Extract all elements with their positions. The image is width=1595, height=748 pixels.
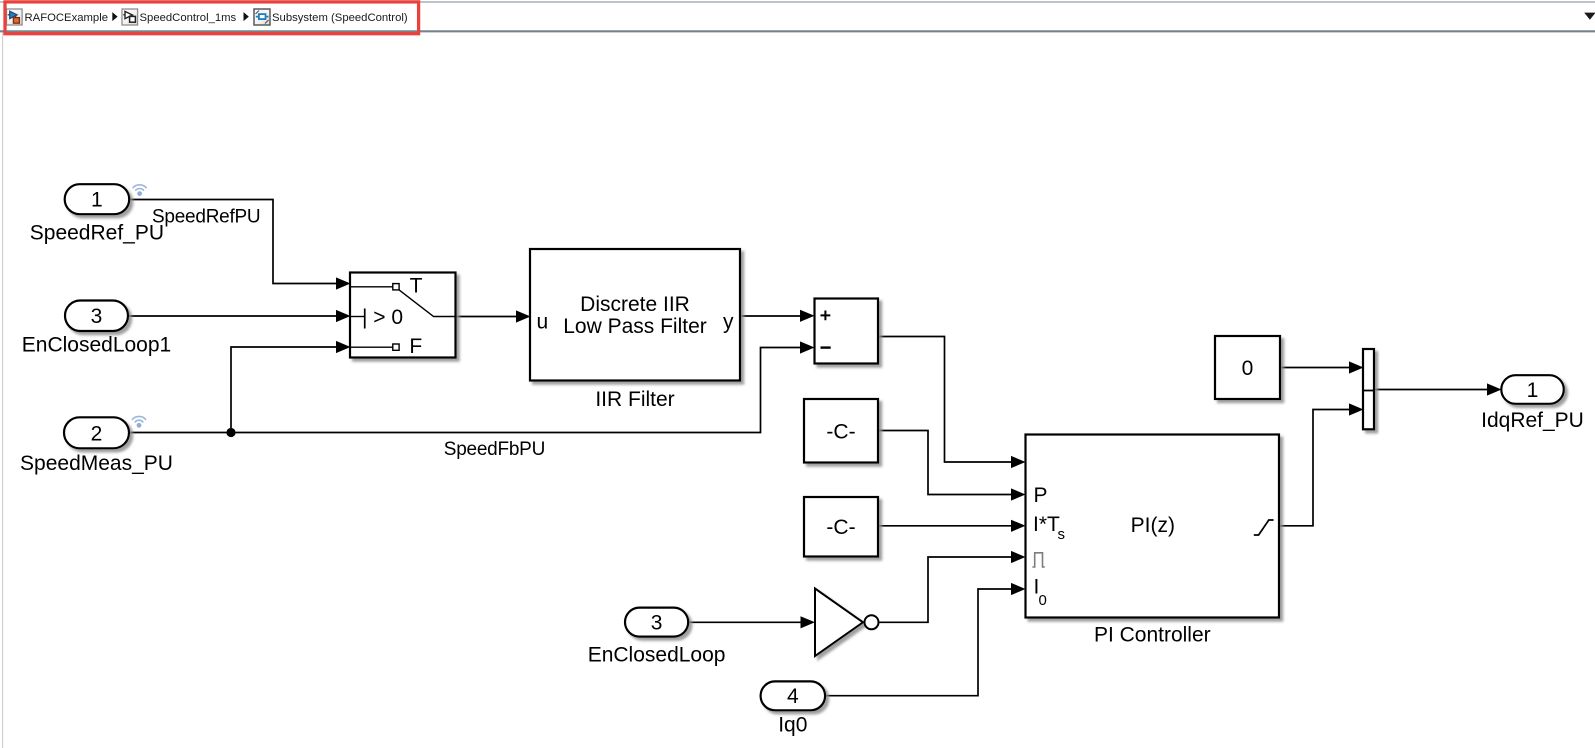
svg-text:SpeedMeas_PU: SpeedMeas_PU [20,452,173,475]
wire inport 4 Iq0 to PI Controller I0 input [825,589,1012,696]
wifi badge inport 1 [133,185,146,196]
switch F row line and port square [350,346,393,348]
svg-text:IIR Filter: IIR Filter [595,388,674,411]
svg-text:RAFOCExample: RAFOCExample [25,12,109,24]
breadcrumb separator 1 [112,12,117,21]
wire SpeedRefPU from inport 1 to switch input 1 [129,200,337,284]
svg-text:y: y [723,311,734,334]
breadcrumb bar bottom border [0,30,1595,32]
red highlight rectangle [5,2,419,34]
reset pulse glyph [1032,553,1044,567]
wire inport EnClosedLoop to NOT gate [688,621,802,623]
inport 2 SpeedMeas_PU [64,417,129,448]
svg-text:SpeedRef_PU: SpeedRef_PU [30,222,164,245]
wire switch output to IIR Filter input [456,316,518,318]
svg-text:PI(z): PI(z) [1131,514,1175,537]
mux vector concatenate [1363,349,1374,429]
PI Controller block [1026,435,1280,618]
svg-text:-C-: -C- [826,420,855,443]
switch diagonal arm [399,290,455,317]
svg-text:Subsystem (SpeedControl): Subsystem (SpeedControl) [272,12,408,24]
wire constant 0 to mux input 1 [1280,367,1350,369]
NOT gate [815,589,863,657]
svg-text:2: 2 [91,422,103,445]
canvas left edge line [2,33,4,748]
breadcrumb separator 2 [244,12,249,21]
svg-text:SpeedRefPU: SpeedRefPU [152,207,260,228]
svg-text:SpeedFbPU: SpeedFbPU [444,439,545,460]
breadcrumb icon subsystem SpeedControl_1ms [122,9,138,25]
constant C1 [804,399,878,463]
switch T row line and port square [350,286,393,288]
breadcrumb icon Subsystem [254,9,270,25]
IIR Filter block [530,249,740,381]
wire IIR Filter output to sum plus input [740,315,801,317]
wire constant C2 to PI Controller I*Ts input [878,525,1012,527]
wire junction branch to switch input 3 [231,347,337,433]
svg-text:Low Pass Filter: Low Pass Filter [563,315,707,338]
wire SpeedFbPU from inport 2 to sum minus input [130,348,802,433]
wire mux output to outport 1 [1374,389,1488,391]
svg-text:P: P [1034,484,1048,507]
svg-text:3: 3 [91,305,103,328]
svg-text:s: s [1058,526,1066,543]
inport 4 Iq0 [761,681,826,710]
svg-text:SpeedControl_1ms: SpeedControl_1ms [140,12,237,24]
dropdown arrow top-right [1584,13,1595,20]
junction node on SpeedFbPU wire [226,428,235,437]
sum block [815,299,879,364]
svg-text:EnClosedLoop1: EnClosedLoop1 [22,334,171,357]
constant C2 [804,497,878,557]
svg-text:IdqRef_PU: IdqRef_PU [1481,409,1584,432]
wifi badge inport 2 [132,416,145,427]
svg-text:-C-: -C- [826,516,855,539]
svg-text:4: 4 [787,685,799,708]
inport 1 SpeedRef_PU [65,184,130,214]
plus sign [821,311,831,321]
svg-text:EnClosedLoop: EnClosedLoop [588,644,726,667]
svg-text:| > 0: | > 0 [362,306,403,329]
svg-text:F: F [409,335,422,358]
svg-text:I*T: I*T [1033,513,1060,536]
constant 0 [1215,336,1280,399]
svg-text:1: 1 [1527,379,1539,402]
mux divider [1363,390,1374,392]
wire sum output to PI Controller first input [878,337,1012,463]
inport 3 EnClosedLoop [625,608,688,637]
svg-text:T: T [410,275,423,298]
svg-text:3: 3 [651,611,663,634]
svg-text:0: 0 [1242,357,1254,380]
saturation glyph [1254,520,1274,535]
svg-text:u: u [537,311,549,334]
wire from inport 3 EnClosedLoop1 to switch control input [129,315,338,317]
breadcrumb bar top border [0,1,1595,3]
svg-text:0: 0 [1039,592,1047,609]
svg-text:Iq0: Iq0 [778,713,807,736]
wire PI Controller output to mux input 2 [1279,410,1350,526]
breadcrumb icon model RAFOCExample [7,9,23,25]
switch control row [350,316,364,318]
outport 1 IdqRef_PU [1501,375,1564,404]
wire constant C1 to PI Controller P input [878,431,1012,495]
wire NOT gate output to PI Controller reset input [880,557,1013,622]
inport 3 EnClosedLoop1 [65,301,128,332]
minus sign [821,346,831,348]
svg-text:1: 1 [91,189,103,212]
svg-text:Discrete IIR: Discrete IIR [580,293,690,316]
switch block [350,273,456,358]
svg-text:PI Controller: PI Controller [1094,624,1211,647]
